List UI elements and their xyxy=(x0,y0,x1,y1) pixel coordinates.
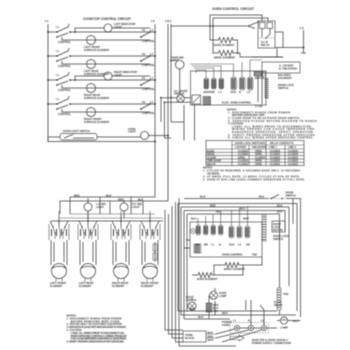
wire riser 4 xyxy=(176,202,184,342)
svg-text:LINE 2: LINE 2 xyxy=(288,145,297,149)
solenoid K3 door lock xyxy=(272,221,285,232)
terminal block TB1 xyxy=(183,331,216,343)
relay K2 small box xyxy=(192,95,201,104)
svg-text:BAKE ELEMENT: BAKE ELEMENT xyxy=(197,277,218,281)
lamp DS9 lamp right xyxy=(277,317,301,330)
wire bl long bus xyxy=(51,220,163,222)
connector P2 hatched br xyxy=(194,244,201,253)
svg-text:OVEN CONTROL CIRCUIT: OVEN CONTROL CIRCUIT xyxy=(212,7,255,11)
svg-text:L1: L1 xyxy=(168,19,172,23)
svg-text:OVEN CONTROL: OVEN CONTROL xyxy=(222,253,243,257)
element E4 right front surface element xyxy=(87,108,96,117)
wire bl top feeds xyxy=(60,197,168,218)
svg-text:CONTROL: CONTROL xyxy=(58,88,71,92)
terminal T4 xyxy=(231,77,237,94)
wire element branch row3 xyxy=(62,85,86,88)
row 3 cooktop xyxy=(47,70,156,100)
svg-text:BROIL ELEMENT: BROIL ELEMENT xyxy=(224,267,246,271)
svg-text:POWER SUPPLY CONNECTION: POWER SUPPLY CONNECTION xyxy=(252,341,291,345)
wire br lower buses xyxy=(178,311,296,319)
svg-text:L3: L3 xyxy=(151,19,155,23)
element E7 right rear element xyxy=(114,264,129,279)
svg-text:BLK: BLK xyxy=(138,198,143,202)
TOD assembly right xyxy=(262,215,289,241)
svg-text:SOLENOID: SOLENOID xyxy=(278,76,292,80)
junction dot row4 xyxy=(47,103,49,105)
svg-text:N: N xyxy=(248,319,250,323)
svg-text:LIGHT: LIGHT xyxy=(114,25,122,29)
wire bottom return cooktop xyxy=(48,137,155,142)
svg-text:CONTROL: CONTROL xyxy=(142,87,155,91)
wire bus L1 left xyxy=(47,24,49,142)
svg-text:WHT: WHT xyxy=(243,217,249,221)
svg-text:L2: L2 xyxy=(300,26,304,30)
switch S10 infinite switch RF xyxy=(141,215,159,227)
wire left risers br xyxy=(178,204,187,320)
svg-text:RELAY CONTACTS: RELAY CONTACTS xyxy=(270,141,294,145)
wire row1 main xyxy=(48,31,150,33)
svg-text:LAMP: LAMP xyxy=(281,326,289,330)
row 2 cooktop xyxy=(47,47,156,76)
svg-text:BLK: BLK xyxy=(208,331,213,335)
svg-text:LINE 1: LINE 1 xyxy=(269,145,278,149)
svg-text:BLK: BLK xyxy=(200,195,205,199)
svg-text:CORD: CORD xyxy=(222,323,230,327)
wire riser 3 xyxy=(172,206,183,338)
svg-text:P: P xyxy=(68,23,70,27)
element E2 left rear surface element xyxy=(87,60,96,69)
svg-text:N: N xyxy=(239,90,241,94)
svg-text:B. UNLOCKED: B. UNLOCKED xyxy=(279,67,297,71)
svg-text:BLK: BLK xyxy=(293,319,298,323)
element E5 left front element xyxy=(52,264,67,279)
junction dot row3 xyxy=(47,79,49,81)
svg-text:SURFACE ELEMENT: SURFACE ELEMENT xyxy=(84,96,110,100)
svg-text:BLK: BLK xyxy=(277,210,282,214)
terminal T3 xyxy=(219,78,224,94)
lamp DS6 ind light left xyxy=(84,203,92,211)
wire bake broil feeders xyxy=(210,15,219,53)
switch S3 control right rear xyxy=(57,75,69,81)
junction dot row1 xyxy=(47,31,49,33)
switch S5 oven light switch box xyxy=(60,134,97,141)
svg-text:WHT: WHT xyxy=(208,338,214,342)
lamp DS8 oven lamp xyxy=(210,291,227,299)
switch S11 light switch xyxy=(186,295,196,310)
svg-text:MOTOR: MOTOR xyxy=(273,228,283,232)
terminal T5 xyxy=(239,77,245,94)
terminal T2 broil xyxy=(211,78,216,94)
svg-text:P: P xyxy=(68,47,70,51)
connector P1 hatched xyxy=(203,97,211,106)
notes below table xyxy=(203,165,305,181)
motor M1 door lock motor hatched xyxy=(254,72,265,77)
electronic oven control box xyxy=(191,71,267,105)
wire indicator branch row1 xyxy=(75,28,104,32)
svg-text:COOKTOP CONTROL CIRCUIT: COOKTOP CONTROL CIRCUIT xyxy=(83,17,132,21)
svg-text:LIGHT: LIGHT xyxy=(132,205,140,209)
notes block bottom left xyxy=(67,314,127,344)
svg-text:3. OVEN AT 80% LINE (240V) CON: 3. OVEN AT 80% LINE (240V) CONNECT OPERA… xyxy=(203,178,305,182)
lamp DS2 right indicator light xyxy=(104,72,112,80)
lamp DS4 oven indicator light xyxy=(170,56,184,95)
door switch dashed xyxy=(268,191,296,200)
table cell marks xyxy=(238,150,298,166)
wire right risers lower xyxy=(192,236,297,319)
svg-text:OVEN LIGHT SWITCH: OVEN LIGHT SWITCH xyxy=(63,129,90,133)
connector P3 hatched small xyxy=(206,303,219,313)
svg-text:ELEMENT: ELEMENT xyxy=(50,284,63,288)
wire bus L1 right xyxy=(167,24,169,201)
surface unit column 3 xyxy=(111,215,131,288)
svg-text:L1: L1 xyxy=(45,19,49,23)
svg-text:P: P xyxy=(68,95,70,99)
svg-text:H1: H1 xyxy=(142,100,146,104)
element E3 right rear surface element xyxy=(87,84,96,93)
svg-text:ELEMENT: ELEMENT xyxy=(141,284,154,288)
table rows xyxy=(206,152,304,162)
svg-text:BLU: BLU xyxy=(240,207,245,211)
wire element branch row4 xyxy=(62,109,86,112)
svg-text:RED: RED xyxy=(210,204,216,208)
TOD bar right lower xyxy=(277,288,289,310)
switch door lock hatched bar xyxy=(265,78,268,98)
svg-text:CONTROL: CONTROL xyxy=(142,63,155,67)
surface unit column 4 xyxy=(140,215,160,288)
wire top bus br xyxy=(184,199,301,318)
svg-text:H1: H1 xyxy=(142,76,146,80)
switch S9 infinite switch RR xyxy=(112,215,130,227)
switch S2 control left rear xyxy=(57,51,69,57)
svg-text:N: N xyxy=(219,243,221,247)
wire bus L3 right xyxy=(154,24,156,197)
svg-text:5. VERIFY PROPER OPERATION AFT: 5. VERIFY PROPER OPERATION AFTER SERVICI… xyxy=(67,340,125,344)
wire top feed to relay xyxy=(171,15,268,29)
svg-text:ELEC. OVEN CONTROL: ELEC. OVEN CONTROL xyxy=(222,101,252,105)
svg-text:GD: GD xyxy=(246,243,250,247)
svg-text:BR: BR xyxy=(211,90,215,94)
oven light switch row xyxy=(48,127,169,143)
wire bus nest left xyxy=(178,204,297,289)
svg-text:LAMP: LAMP xyxy=(219,294,227,298)
wire terminal drops br xyxy=(198,206,248,226)
svg-text:RELAY: RELAY xyxy=(261,43,270,47)
svg-text:DLB: DLB xyxy=(231,90,236,94)
wire terminals up feeders xyxy=(190,60,262,78)
wire indicator branch row3 xyxy=(75,76,104,80)
svg-text:BLK: BLK xyxy=(106,194,111,198)
svg-text:BLK: BLK xyxy=(277,204,282,208)
wire element branch row2 xyxy=(62,61,86,64)
svg-text:SURFACE ELEMENT: SURFACE ELEMENT xyxy=(84,48,110,52)
svg-text:MOTOR: MOTOR xyxy=(255,76,265,80)
door lock assembly box xyxy=(254,62,300,108)
svg-text:P: P xyxy=(68,71,70,75)
wire element tails xyxy=(56,278,153,282)
svg-text:BAKE: BAKE xyxy=(204,90,212,94)
element E6 left rear element xyxy=(81,264,96,279)
svg-text:RED: RED xyxy=(190,307,196,311)
svg-text:RED: RED xyxy=(74,194,80,198)
surface unit column 2 xyxy=(78,215,98,288)
wire door lock neutral xyxy=(258,73,262,104)
wire oven light row xyxy=(48,136,141,138)
wire row4 main xyxy=(48,103,150,105)
svg-text:TB2: TB2 xyxy=(252,253,257,257)
svg-text:CONTROL: CONTROL xyxy=(142,39,155,43)
svg-text:H1: H1 xyxy=(142,52,146,56)
svg-text:RELAY: RELAY xyxy=(274,303,283,307)
resistor bake element xyxy=(219,37,234,42)
junction dots bl xyxy=(58,220,60,222)
element E8 right front element xyxy=(143,264,158,279)
svg-text:RED: RED xyxy=(208,335,214,339)
svg-text:SWITCH: SWITCH xyxy=(278,86,288,90)
svg-text:SWITCH: SWITCH xyxy=(186,298,196,302)
svg-text:SWITCH: SWITCH xyxy=(286,194,296,198)
terminal T6 xyxy=(247,77,253,94)
svg-text:BLK: BLK xyxy=(191,217,196,221)
svg-text:LIGHT: LIGHT xyxy=(128,130,136,134)
svg-text:BR: BR xyxy=(204,243,208,247)
svg-text:UNLOCKED: UNLOCKED xyxy=(252,145,267,149)
resistor broil element xyxy=(219,50,234,55)
switch S6 oven light door switch label xyxy=(174,89,188,96)
switch S7 infinite switch LF xyxy=(50,215,68,227)
wire from broil to relay bottom xyxy=(238,53,284,57)
svg-text:WHT: WHT xyxy=(222,311,228,315)
wire relay output to L2 xyxy=(252,32,304,57)
wire to oven ind xyxy=(171,61,180,95)
relay K1 D.L.B. relay xyxy=(258,21,275,48)
svg-text:RED: RED xyxy=(118,198,124,202)
svg-text:BLOCK: BLOCK xyxy=(185,336,194,340)
svg-text:CLOSED: CLOSED xyxy=(288,163,298,166)
svg-text:6. CHECK ALL WIRING AFTER SER: 6. CHECK ALL WIRING AFTER SERVICING CONT… xyxy=(228,136,314,140)
svg-text:CONTROL: CONTROL xyxy=(58,112,71,116)
switch S1 control left front xyxy=(57,27,69,33)
lamp DS1 left indicator light xyxy=(104,24,112,32)
svg-text:CLOSED: CLOSED xyxy=(238,163,248,166)
svg-text:OPEN: OPEN xyxy=(255,163,262,166)
svg-text:BROIL ELEMENT: BROIL ELEMENT xyxy=(214,56,236,60)
junction dot row2 xyxy=(47,55,49,57)
wire row3 main xyxy=(48,79,150,81)
svg-text:CLOSED: CLOSED xyxy=(270,163,280,166)
svg-text:ELEMENT: ELEMENT xyxy=(112,284,125,288)
svg-text:DLB: DLB xyxy=(229,243,234,247)
wire riser 1 xyxy=(165,210,183,330)
switch S8 infinite switch LR xyxy=(79,215,97,227)
svg-text:TOD: TOD xyxy=(283,292,289,296)
terminal T1 bake xyxy=(204,78,212,94)
lamp DS5 oven cavity light xyxy=(177,95,185,103)
table header group lines xyxy=(206,141,304,166)
svg-text:BAKE ELEMENT: BAKE ELEMENT xyxy=(214,43,235,47)
wire br middle xyxy=(184,240,262,275)
resistor limiter column 4 xyxy=(153,244,157,260)
svg-text:CONTROL: CONTROL xyxy=(58,64,71,68)
svg-text:BLK: BLK xyxy=(198,315,203,319)
row 4 cooktop xyxy=(47,95,156,124)
wire bl feeds xyxy=(59,211,163,218)
resistor broil element br xyxy=(218,263,246,271)
element tube column 2 xyxy=(80,240,96,265)
element tube column 3 xyxy=(113,240,129,265)
wire oven lamp drop xyxy=(161,98,195,141)
surface unit column 1 xyxy=(49,215,69,288)
svg-text:LIGHT: LIGHT xyxy=(114,73,122,77)
element E1 left front surface element xyxy=(87,36,96,45)
lamp DS7 ind light right xyxy=(120,203,128,211)
power terminals L1 N L2 xyxy=(216,300,277,342)
wire element branch row1 xyxy=(62,37,86,40)
svg-text:CONTROL: CONTROL xyxy=(58,40,71,44)
svg-text:BLK: BLK xyxy=(259,195,264,199)
wire riser 5 xyxy=(179,198,236,346)
wire bus L1 oven xyxy=(170,24,172,122)
interconnect verticals between sections xyxy=(165,198,236,346)
resistor bake element br xyxy=(192,273,218,281)
element tube column 4 xyxy=(142,240,158,265)
svg-text:L1 (N): L1 (N) xyxy=(255,104,262,108)
svg-text:ELEMENT: ELEMENT xyxy=(79,284,92,288)
svg-text:LIGHT: LIGHT xyxy=(171,58,179,62)
wire riser 2 xyxy=(169,214,184,334)
row 1 cooktop xyxy=(47,22,156,52)
switch S4 control right front xyxy=(57,99,69,105)
svg-text:CONTROL: CONTROL xyxy=(142,111,155,115)
svg-text:SURFACE ELEMENT: SURFACE ELEMENT xyxy=(84,120,110,124)
svg-text:H1: H1 xyxy=(142,28,146,32)
svg-text:SWITCH: SWITCH xyxy=(273,237,283,241)
element tube column 1 xyxy=(51,240,67,265)
oven control box br xyxy=(190,206,262,257)
svg-text:LOCKED: LOCKED xyxy=(235,145,246,149)
wire row2 main xyxy=(48,55,150,57)
connector terminals br xyxy=(196,225,200,235)
arrow marker xyxy=(230,335,244,341)
svg-text:DOOR LOCK SWITCHES: DOOR LOCK SWITCHES xyxy=(235,141,266,145)
